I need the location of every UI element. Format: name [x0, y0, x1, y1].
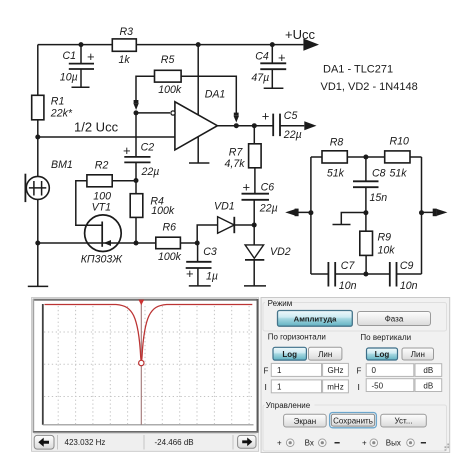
svg-text:1k: 1k — [119, 54, 131, 66]
svg-text:Экран: Экран — [294, 417, 317, 426]
svg-text:mHz: mHz — [327, 382, 343, 391]
svg-text:423.032 Hz: 423.032 Hz — [65, 438, 106, 447]
svg-text:+: + — [87, 49, 95, 64]
svg-text:Режим: Режим — [268, 299, 293, 308]
svg-text:1µ: 1µ — [206, 271, 218, 283]
svg-text:C1: C1 — [63, 50, 77, 62]
svg-text:По вертикали: По вертикали — [360, 333, 411, 342]
svg-text:+: + — [277, 438, 282, 447]
svg-text:R8: R8 — [330, 137, 344, 149]
svg-text:+: + — [243, 180, 251, 195]
svg-text:47µ: 47µ — [251, 72, 269, 84]
svg-text:Log: Log — [282, 350, 297, 359]
svg-text:F: F — [357, 366, 362, 375]
svg-text:I: I — [358, 382, 360, 392]
svg-text:+Ucc: +Ucc — [285, 27, 315, 42]
svg-text:C4: C4 — [255, 51, 269, 63]
svg-text:Уст...: Уст... — [395, 417, 413, 426]
svg-text:I: I — [265, 382, 267, 392]
svg-text:10µ: 10µ — [60, 71, 78, 83]
svg-text:+: + — [362, 438, 367, 447]
svg-text:C3: C3 — [203, 246, 217, 258]
svg-text:По горизонтали: По горизонтали — [268, 333, 326, 342]
svg-text:4,7k: 4,7k — [225, 158, 246, 170]
svg-text:10n: 10n — [339, 280, 357, 292]
svg-text:GHz: GHz — [328, 366, 344, 375]
svg-text:C6: C6 — [261, 182, 275, 194]
svg-text:C7: C7 — [341, 260, 356, 272]
svg-text:1: 1 — [277, 382, 282, 391]
svg-text:100k: 100k — [151, 205, 175, 217]
svg-text:10k: 10k — [378, 245, 396, 257]
svg-text:+: + — [186, 266, 194, 281]
svg-text:C2: C2 — [141, 142, 155, 154]
svg-text:DA1: DA1 — [205, 89, 226, 101]
svg-text:VD2: VD2 — [270, 246, 291, 258]
svg-text:R2: R2 — [95, 160, 109, 172]
svg-text:22µ: 22µ — [141, 166, 160, 178]
svg-text:dB: dB — [423, 381, 433, 390]
svg-text:Log: Log — [375, 350, 390, 359]
svg-text:Амплитуда: Амплитуда — [294, 314, 337, 323]
svg-text:КП303Ж: КП303Ж — [81, 254, 124, 266]
svg-text:dB: dB — [423, 366, 433, 375]
svg-text:Вых: Вых — [386, 438, 401, 447]
svg-text:22µ: 22µ — [283, 129, 302, 141]
svg-text:R3: R3 — [120, 26, 134, 38]
svg-text:22µ: 22µ — [259, 203, 278, 215]
svg-text:VD1: VD1 — [214, 201, 235, 213]
svg-text:R6: R6 — [163, 222, 177, 234]
svg-text:R5: R5 — [161, 54, 175, 66]
svg-text:1/2 Ucc: 1/2 Ucc — [74, 119, 119, 134]
svg-text:22k*: 22k* — [50, 108, 73, 120]
svg-text:R9: R9 — [378, 232, 392, 244]
svg-text:F: F — [264, 367, 269, 376]
svg-text:51k: 51k — [327, 168, 345, 180]
svg-text:51k: 51k — [390, 168, 408, 180]
svg-text:Фаза: Фаза — [385, 314, 404, 323]
svg-text:Лин: Лин — [411, 350, 425, 359]
svg-text:Лин: Лин — [318, 350, 332, 359]
svg-text:+: + — [123, 143, 131, 158]
svg-text:Управление: Управление — [266, 401, 311, 410]
svg-text:C9: C9 — [400, 260, 414, 272]
svg-text:100k: 100k — [158, 251, 182, 263]
svg-text:1: 1 — [277, 366, 282, 375]
svg-text:DA1 - TLC271: DA1 - TLC271 — [323, 63, 393, 75]
svg-text:100k: 100k — [158, 84, 182, 96]
svg-text:Вх: Вх — [305, 438, 314, 447]
svg-text:-24.466 dB: -24.466 dB — [155, 438, 194, 447]
svg-text:0: 0 — [372, 366, 377, 375]
svg-text:BM1: BM1 — [51, 159, 73, 171]
svg-text:10n: 10n — [400, 280, 418, 292]
svg-text:VT1: VT1 — [92, 202, 111, 214]
svg-text:R1: R1 — [51, 96, 65, 108]
svg-text:+: + — [262, 108, 270, 123]
svg-text:C5: C5 — [284, 110, 298, 122]
svg-text:R10: R10 — [390, 136, 410, 148]
svg-text:-50: -50 — [372, 381, 384, 390]
svg-text:VD1, VD2 - 1N4148: VD1, VD2 - 1N4148 — [321, 81, 418, 93]
svg-text:+: + — [278, 50, 286, 65]
svg-text:Сохранить: Сохранить — [333, 417, 373, 426]
svg-text:R7: R7 — [229, 147, 244, 159]
svg-text:C8: C8 — [372, 167, 386, 179]
svg-text:15n: 15n — [370, 192, 388, 204]
